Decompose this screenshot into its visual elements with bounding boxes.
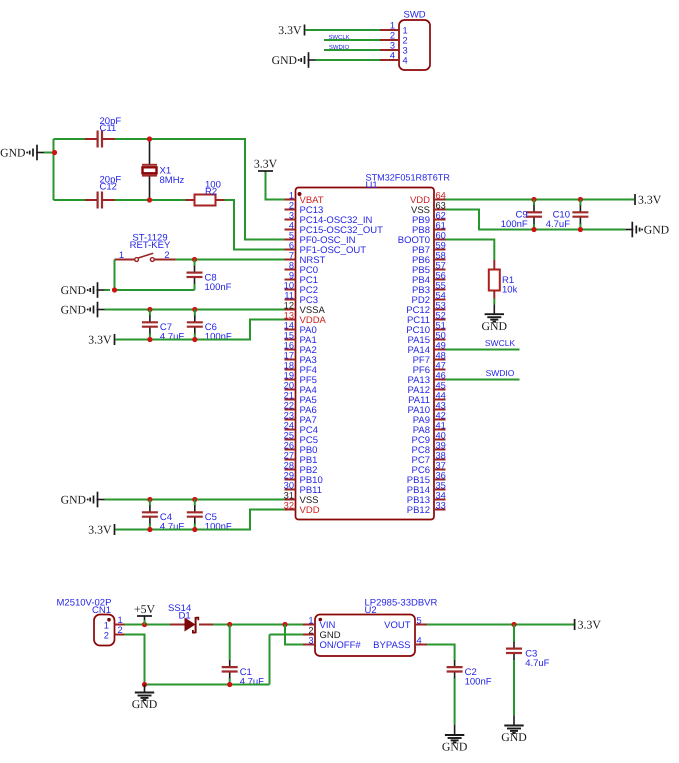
junction gnd rail CN1 (142, 682, 147, 687)
svg-text:U1: U1 (366, 180, 378, 191)
svg-text:21: 21 (284, 390, 294, 400)
wire 3.3V to VDDA pin13 (116, 320, 285, 340)
junction C3 top (511, 622, 516, 627)
junction C10 bottom (578, 227, 583, 232)
wire VDD pin64 to 3.3V (446, 199, 635, 201)
U1 pin 27 PB1 (284, 450, 318, 466)
svg-text:61: 61 (436, 220, 446, 230)
U1 pin 15 PA1 (284, 330, 317, 346)
wire GND to SWD pin4 (316, 59, 381, 61)
junction C9 top (531, 197, 536, 202)
U2 pin 5 VOUT (384, 615, 427, 631)
U1 pin 23 PA7 (284, 410, 317, 426)
wire VSS pin63 to gnd rail (446, 210, 626, 230)
svg-text:45: 45 (436, 380, 446, 390)
svg-text:37: 37 (436, 460, 446, 470)
label X1 value 8MHz (160, 166, 185, 186)
U1 pin 10 PC2 (284, 280, 318, 296)
wire C2 to earth (454, 725, 456, 735)
wire C11 to pin5 bend (150, 139, 285, 240)
svg-text:13: 13 (284, 310, 294, 320)
svg-text:C11: C11 (100, 123, 117, 134)
wire CN1 pin1 to D1 (125, 624, 171, 626)
svg-text:43: 43 (436, 400, 446, 410)
capacitor C2 (447, 659, 463, 725)
capacitor C4 (142, 500, 158, 530)
svg-text:47: 47 (436, 360, 446, 370)
junction X1 top (147, 136, 152, 141)
power flag 3.3V (right) (635, 192, 662, 206)
svg-text:9: 9 (289, 270, 294, 280)
svg-text:24: 24 (284, 420, 294, 430)
SWD pin 1 (380, 21, 408, 36)
ground GND (osc rail) (0, 145, 44, 161)
junction X1 bottom (147, 197, 152, 202)
svg-text:SWD: SWD (404, 10, 426, 21)
wire gnd stub osc (44, 152, 55, 154)
U1 pin 56 PB4 (412, 270, 446, 286)
svg-text:5: 5 (289, 230, 294, 240)
U1 pin 30 PB11 (284, 480, 322, 496)
wire SWCLK to SWD pin2 (324, 39, 380, 41)
svg-text:1: 1 (289, 190, 294, 200)
svg-text:GND: GND (0, 146, 25, 159)
U1 pin 39 PC8 (412, 440, 446, 456)
wire VIN to ON/OFF# (285, 625, 303, 645)
U1 pin 58 PB6 (412, 250, 446, 266)
capacitor C1 (222, 625, 238, 685)
svg-text:62: 62 (436, 210, 446, 220)
label C1 value 4.7uF (240, 667, 264, 687)
resistor R2 100 (186, 195, 225, 206)
svg-text:3: 3 (289, 210, 294, 220)
CN1 pin 1 (104, 615, 125, 631)
U1 pin 38 PC7 (412, 450, 446, 466)
U1 pin 24 PC4 (284, 420, 318, 436)
svg-text:28: 28 (284, 460, 294, 470)
svg-text:3.3V: 3.3V (578, 617, 602, 631)
U1 pin 55 PB3 (412, 280, 446, 296)
U1 pin 45 PA12 (407, 380, 445, 396)
power flag 3.3V (VDD) (88, 522, 114, 536)
svg-text:100nF: 100nF (465, 676, 492, 687)
U1 pin 8 PC0 (285, 260, 318, 276)
svg-text:51: 51 (436, 320, 446, 330)
U1 pin 40 PC9 (412, 430, 446, 446)
svg-text:4.7uF: 4.7uF (160, 522, 184, 533)
svg-text:1: 1 (308, 615, 313, 625)
U1 pin 13 VDDA (284, 310, 327, 326)
wire GND to VSSA pin12 (105, 309, 285, 311)
svg-text:3: 3 (403, 45, 408, 55)
U1 pin 47 PF6 (413, 360, 446, 376)
wire bottom gnd rail (145, 684, 270, 686)
svg-text:GND: GND (61, 493, 86, 506)
U1 pin 64 VDD (410, 190, 446, 206)
svg-text:8: 8 (289, 260, 294, 270)
svg-text:25: 25 (284, 430, 294, 440)
U1 pin 43 PA10 (407, 400, 445, 416)
svg-text:10: 10 (284, 280, 294, 290)
U1 pin 11 PC3 (284, 290, 318, 306)
svg-text:23: 23 (284, 410, 294, 420)
svg-text:52: 52 (436, 310, 446, 320)
svg-text:64: 64 (436, 190, 446, 200)
U2 pin 1 VIN (303, 615, 335, 631)
svg-text:26: 26 (284, 440, 294, 450)
svg-text:17: 17 (284, 350, 294, 360)
U1 pin 44 PA11 (408, 390, 446, 406)
svg-text:5: 5 (417, 615, 422, 625)
SWD pin 2 (380, 31, 408, 46)
U1 pin 5 PF0-OSC_IN (285, 230, 356, 246)
svg-text:3.3V: 3.3V (638, 192, 662, 206)
wire PA13 SWDIO (446, 379, 520, 381)
svg-text:35: 35 (436, 480, 446, 490)
svg-text:8MHz: 8MHz (160, 175, 185, 186)
wire 3.3V to SWD pin1 (306, 29, 381, 31)
ground GND (SWD pin4) (272, 52, 316, 68)
svg-text:36: 36 (436, 470, 446, 480)
svg-text:BYPASS: BYPASS (373, 640, 410, 651)
U1 pin 41 PA8 (413, 420, 446, 436)
svg-text:C12: C12 (100, 182, 117, 193)
svg-text:PB12: PB12 (407, 505, 430, 516)
wire BYPASS to C2 (427, 645, 455, 660)
U1 pin 26 PB0 (284, 440, 318, 456)
wire U2 GND horizontal (270, 634, 304, 636)
ground GND (C2) (442, 735, 468, 754)
svg-text:2: 2 (308, 625, 313, 635)
U1 pin 12 VSSA (284, 300, 326, 316)
junction C8 top (192, 257, 197, 262)
svg-text:55: 55 (436, 280, 446, 290)
capacitor C9 (526, 200, 542, 230)
U1 pin 62 PB9 (412, 210, 446, 226)
wire R1 to ground (493, 305, 495, 315)
svg-text:SWDIO: SWDIO (486, 368, 515, 378)
svg-text:10k: 10k (502, 284, 518, 295)
svg-text:100nF: 100nF (205, 282, 232, 293)
ground GND (input) (132, 693, 158, 712)
wire D1 to U2 VIN (213, 624, 303, 626)
svg-text:14: 14 (284, 320, 294, 330)
wire R2 to pin6 (225, 200, 285, 250)
U1 pin 53 PC12 (406, 300, 446, 316)
svg-text:1: 1 (403, 25, 408, 35)
svg-text:4: 4 (417, 635, 422, 645)
ground GND (reset) (61, 282, 105, 298)
U1 pin 19 PF5 (284, 370, 317, 386)
power flag 3.3V (SWD pin1) (278, 23, 304, 37)
U1 pin 29 PB10 (284, 470, 323, 486)
svg-text:32: 32 (284, 500, 294, 510)
U1 pin 63 VSS (411, 200, 446, 216)
svg-text:SWCLK: SWCLK (485, 338, 516, 348)
wire 3.3V to VBAT pin1 (266, 172, 285, 200)
svg-text:3: 3 (390, 41, 395, 51)
label C5 value 100nF (205, 512, 232, 532)
U1 pin 9 PC1 (285, 270, 318, 286)
capacitor C11 (85, 131, 150, 148)
U1 pin 37 PC6 (412, 460, 446, 476)
label C11 value 20pF (100, 116, 122, 134)
junction C1 bottom (227, 682, 232, 687)
power flag 3.3V (VBAT) (254, 157, 278, 175)
svg-text:4.7uF: 4.7uF (525, 658, 549, 669)
svg-text:33: 33 (436, 500, 446, 510)
capacitor C5 (187, 500, 203, 530)
wire 3.3V to VDD pin32 (116, 510, 285, 530)
U1 pin 25 PC5 (284, 430, 318, 446)
label R1 value 10k (502, 275, 518, 295)
svg-text:27: 27 (284, 450, 294, 460)
svg-text:3.3V: 3.3V (88, 332, 112, 346)
ground GND (VSS) (61, 492, 105, 508)
U1 pin 1 VBAT (285, 190, 324, 206)
wire BOOT0 to R1 (446, 240, 495, 261)
U1 pin 46 PA13 (407, 370, 445, 386)
U1 pin 14 PA0 (284, 320, 317, 336)
wire VOUT to 3.3V (427, 624, 574, 626)
junction C5 top (192, 497, 197, 502)
U2 pin 2 GND (303, 625, 341, 641)
svg-text:39: 39 (436, 440, 446, 450)
CN1 pin 2 (104, 625, 125, 641)
U1 pin 33 PB12 (407, 500, 446, 516)
U1 pin 4 PC15-OSC32_OUT (285, 220, 384, 236)
svg-text:VDD: VDD (300, 505, 320, 516)
svg-text:44: 44 (436, 390, 446, 400)
label C6 value 100nF (205, 322, 232, 342)
label C7 value 4.7uF (160, 322, 184, 342)
junction C1 top (227, 622, 232, 627)
crystal X1 8MHz (142, 139, 157, 200)
junction C6 top (192, 307, 197, 312)
svg-text:53: 53 (436, 300, 446, 310)
capacitor C3 (506, 625, 522, 716)
svg-text:1: 1 (119, 250, 124, 260)
svg-text:4.7uF: 4.7uF (160, 332, 184, 343)
U2 pin 3 ON/OFF# (303, 635, 361, 651)
U1 pin 32 VDD (284, 500, 320, 516)
wire osc top rail (54, 138, 92, 140)
U1 pin 17 PA3 (284, 350, 317, 366)
U1 pin 50 PA15 (407, 330, 445, 346)
svg-text:GND: GND (442, 740, 468, 754)
junction C9 bottom (531, 227, 536, 232)
svg-text:100nF: 100nF (205, 522, 232, 533)
resistor R1 10k (489, 260, 500, 305)
ground GND (right rail) (625, 222, 669, 238)
junction C5 bottom (192, 527, 197, 532)
U1 pin 59 PB7 (412, 240, 446, 256)
svg-text:48: 48 (436, 350, 446, 360)
label C8 value 100nF (205, 273, 232, 293)
U1 pin 61 PB8 (412, 220, 446, 236)
U1 pin 3 PC14-OSC32_IN (285, 210, 373, 226)
wire gnd stub reset (105, 289, 111, 291)
junction gnd C8 (112, 287, 117, 292)
junction +5V (142, 622, 147, 627)
U1 pin 20 PA4 (284, 380, 317, 396)
wire C3 to earth (513, 715, 515, 725)
capacitor C7 (142, 310, 158, 340)
power flag 3.3V (VOUT) (575, 617, 602, 631)
svg-text:U2: U2 (365, 605, 377, 616)
svg-text:4.7uF: 4.7uF (240, 676, 264, 687)
svg-text:GND: GND (501, 730, 527, 744)
wire C8 bottom to gnd (115, 289, 195, 291)
label C4 value 4.7uF (160, 512, 184, 532)
wire C12 to R2 (150, 199, 186, 201)
wire osc bottom rail (54, 199, 92, 201)
U1 pin 34 PB13 (407, 490, 446, 506)
wire CN1 pin2 down (125, 635, 145, 685)
U1 pin 36 PB15 (407, 470, 446, 486)
svg-text:18: 18 (284, 360, 294, 370)
wire +5V stub (144, 620, 146, 625)
connector CN1 M2510V-02P (57, 598, 115, 646)
U1 pin 31 VSS (284, 490, 319, 506)
wire switch pin1 down to gnd (114, 260, 116, 291)
ground GND (C3) (501, 726, 527, 745)
svg-text:CN1: CN1 (92, 605, 111, 616)
IC U2 LP2985-33DBVR body (315, 597, 438, 656)
svg-text:56: 56 (436, 270, 446, 280)
svg-text:2: 2 (390, 31, 395, 41)
svg-text:58: 58 (436, 250, 446, 260)
svg-text:6: 6 (289, 240, 294, 250)
svg-text:4: 4 (403, 55, 408, 65)
U2 pin 4 BYPASS (373, 635, 427, 651)
svg-text:GND: GND (272, 54, 297, 67)
U1 pin 28 PB2 (284, 460, 318, 476)
svg-text:GND: GND (644, 223, 669, 236)
svg-text:34: 34 (436, 490, 446, 500)
svg-text:STM32F051R8T6TR: STM32F051R8T6TR (366, 173, 451, 183)
svg-text:3.3V: 3.3V (254, 157, 278, 171)
U1 pin 42 PA9 (413, 410, 446, 426)
svg-text:50: 50 (436, 330, 446, 340)
svg-text:42: 42 (436, 410, 446, 420)
svg-text:100nF: 100nF (205, 332, 232, 343)
svg-text:2: 2 (403, 35, 408, 45)
svg-text:15: 15 (284, 330, 294, 340)
U1 pin 57 PB5 (412, 260, 446, 276)
svg-text:GND: GND (132, 697, 158, 711)
U1 pin 21 PA5 (284, 390, 317, 406)
svg-text:100nF: 100nF (501, 219, 528, 230)
junction C4 bottom (147, 527, 152, 532)
U1 pin 7 NRST (285, 250, 326, 266)
U1 pin 48 PF7 (413, 350, 446, 366)
junction VIN branch (282, 622, 287, 627)
ground GND (R1) (482, 314, 508, 333)
label C9 value 100nF (501, 210, 528, 230)
U1 pin 22 PA6 (284, 400, 317, 416)
svg-text:40: 40 (436, 430, 446, 440)
capacitor C12 (85, 192, 150, 209)
junction C10 top (578, 197, 583, 202)
U1 pin 6 PF1-OSC_OUT (285, 240, 367, 256)
svg-text:GND: GND (61, 284, 86, 297)
svg-text:29: 29 (284, 470, 294, 480)
svg-text:2: 2 (289, 200, 294, 210)
U1 pin 16 PA2 (284, 340, 317, 356)
svg-text:D1: D1 (179, 610, 191, 621)
svg-text:R2: R2 (205, 186, 217, 197)
power flag 3.3V (VDDA) (88, 332, 114, 346)
svg-text:49: 49 (436, 340, 446, 350)
wire PA14 SWCLK (446, 349, 520, 351)
svg-text:38: 38 (436, 450, 446, 460)
ground GND (VSSA) (61, 302, 105, 318)
diode D1 SS14 schottky (170, 617, 213, 633)
svg-text:60: 60 (436, 230, 446, 240)
svg-text:19: 19 (284, 370, 294, 380)
label C10 value 4.7uF (546, 210, 570, 230)
svg-text:2: 2 (164, 250, 169, 260)
svg-text:1: 1 (118, 615, 123, 625)
svg-text:1: 1 (104, 621, 109, 631)
svg-text:11: 11 (284, 290, 294, 300)
switch SW1 ST-1129 RET-KEY (115, 233, 176, 262)
svg-text:1: 1 (390, 21, 395, 31)
power flag +5V (134, 602, 156, 620)
svg-text:+5V: +5V (134, 602, 156, 616)
wire U2 GND down (269, 635, 271, 685)
label C3 value 4.7uF (525, 649, 549, 669)
label C12 value 20pF (100, 174, 122, 192)
svg-text:4: 4 (390, 51, 395, 61)
svg-text:57: 57 (436, 260, 446, 270)
junction C4 top (147, 497, 152, 502)
svg-text:GND: GND (482, 319, 508, 333)
svg-text:3.3V: 3.3V (278, 23, 302, 37)
SWD pin 3 (380, 41, 408, 56)
junction C7 top (147, 307, 152, 312)
svg-text:3: 3 (308, 635, 313, 645)
connector SWD (399, 10, 430, 71)
svg-text:41: 41 (436, 420, 446, 430)
svg-text:GND: GND (61, 303, 86, 316)
wire SWDIO to SWD pin3 (324, 49, 380, 51)
IC U1 STM32F051R8T6TR body (296, 173, 451, 520)
U1 pin 35 PB14 (407, 480, 446, 496)
svg-text:31: 31 (284, 490, 294, 500)
svg-text:20: 20 (284, 380, 294, 390)
svg-text:46: 46 (436, 370, 446, 380)
svg-text:12: 12 (284, 300, 294, 310)
junction osc gnd (52, 150, 57, 155)
label R2 value 100 (205, 179, 221, 197)
label D1 value SS14 (168, 603, 191, 621)
capacitor C8 (187, 260, 203, 291)
U1 pin 52 PC11 (407, 310, 446, 326)
junction C7 bottom (147, 337, 152, 342)
svg-text:3.3V: 3.3V (88, 522, 112, 536)
U1 pin 18 PF4 (284, 360, 317, 376)
svg-text:ON/OFF#: ON/OFF# (320, 640, 362, 651)
svg-text:7: 7 (289, 250, 294, 260)
junction C6 bottom (192, 337, 197, 342)
svg-text:VOUT: VOUT (384, 620, 411, 631)
capacitor C10 (572, 200, 588, 230)
svg-text:30: 30 (284, 480, 294, 490)
svg-text:4: 4 (289, 220, 294, 230)
svg-text:16: 16 (284, 340, 294, 350)
